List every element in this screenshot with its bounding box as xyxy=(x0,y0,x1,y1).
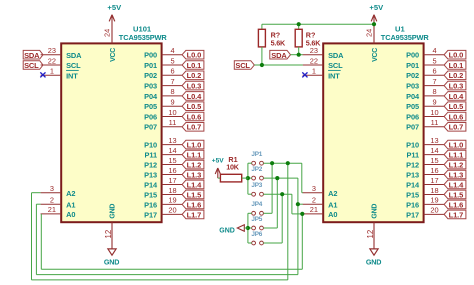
svg-text:12: 12 xyxy=(104,230,113,239)
svg-text:5: 5 xyxy=(432,56,436,65)
svg-text:SCL: SCL xyxy=(328,61,343,70)
svg-text:JP3: JP3 xyxy=(251,182,262,189)
svg-text:L1.3: L1.3 xyxy=(187,170,202,179)
svg-text:L1.1: L1.1 xyxy=(187,150,202,159)
svg-text:2: 2 xyxy=(312,196,316,205)
svg-text:8: 8 xyxy=(432,87,436,96)
svg-text:VCC: VCC xyxy=(110,48,117,62)
svg-text:9: 9 xyxy=(170,98,174,107)
svg-text:P06: P06 xyxy=(144,112,157,121)
svg-text:10K: 10K xyxy=(226,163,240,172)
svg-text:L0.6: L0.6 xyxy=(187,112,202,121)
svg-text:P01: P01 xyxy=(144,61,157,70)
svg-text:23: 23 xyxy=(48,46,56,55)
svg-text:L1.1: L1.1 xyxy=(449,150,464,159)
svg-text:L1.5: L1.5 xyxy=(449,190,464,199)
svg-text:L0.0: L0.0 xyxy=(187,51,202,60)
svg-text:P00: P00 xyxy=(144,51,157,60)
svg-text:P12: P12 xyxy=(406,160,419,169)
svg-text:20: 20 xyxy=(168,206,176,215)
svg-text:INT: INT xyxy=(66,72,78,81)
svg-text:A0: A0 xyxy=(328,210,337,219)
svg-text:L0.5: L0.5 xyxy=(187,102,202,111)
svg-text:16: 16 xyxy=(430,166,438,175)
svg-text:TCA9535PWR: TCA9535PWR xyxy=(381,33,430,42)
svg-text:P14: P14 xyxy=(406,180,420,189)
svg-text:7: 7 xyxy=(170,77,174,86)
svg-text:L1.6: L1.6 xyxy=(187,200,202,209)
svg-text:6: 6 xyxy=(170,67,174,76)
svg-text:12: 12 xyxy=(366,230,375,239)
svg-text:17: 17 xyxy=(168,176,176,185)
svg-text:L1.0: L1.0 xyxy=(449,141,464,150)
svg-text:L0.2: L0.2 xyxy=(187,71,202,80)
svg-text:L0.7: L0.7 xyxy=(449,123,464,132)
svg-text:14: 14 xyxy=(430,146,438,155)
svg-text:SCL: SCL xyxy=(66,61,81,70)
svg-text:L1.5: L1.5 xyxy=(187,190,202,199)
svg-text:P03: P03 xyxy=(144,82,157,91)
svg-text:22: 22 xyxy=(310,56,318,65)
svg-text:15: 15 xyxy=(168,156,176,165)
svg-text:P16: P16 xyxy=(406,200,419,209)
svg-text:P15: P15 xyxy=(406,190,419,199)
svg-text:6: 6 xyxy=(432,67,436,76)
svg-text:3: 3 xyxy=(312,184,316,193)
svg-text:L1.6: L1.6 xyxy=(449,200,464,209)
svg-text:8: 8 xyxy=(170,87,174,96)
svg-text:L1.0: L1.0 xyxy=(187,141,202,150)
svg-text:SDA: SDA xyxy=(24,51,40,60)
svg-text:19: 19 xyxy=(168,196,176,205)
svg-text:U1: U1 xyxy=(395,24,405,33)
svg-text:JP4: JP4 xyxy=(251,201,262,208)
svg-text:SDA: SDA xyxy=(271,51,287,60)
svg-text:+5V: +5V xyxy=(107,3,122,12)
svg-text:L1.7: L1.7 xyxy=(449,210,464,219)
svg-text:21: 21 xyxy=(310,205,318,214)
svg-text:21: 21 xyxy=(48,205,56,214)
svg-text:L0.5: L0.5 xyxy=(449,102,464,111)
svg-text:9: 9 xyxy=(432,98,436,107)
svg-text:SCL: SCL xyxy=(24,61,39,70)
svg-text:P12: P12 xyxy=(144,160,157,169)
svg-text:19: 19 xyxy=(430,196,438,205)
svg-text:P02: P02 xyxy=(406,71,419,80)
svg-text:P01: P01 xyxy=(406,61,419,70)
svg-text:SDA: SDA xyxy=(328,51,344,60)
svg-text:JP1: JP1 xyxy=(251,151,262,158)
svg-text:P15: P15 xyxy=(144,190,157,199)
svg-text:13: 13 xyxy=(168,136,176,145)
svg-text:P04: P04 xyxy=(144,92,158,101)
svg-text:11: 11 xyxy=(169,118,177,127)
svg-text:P02: P02 xyxy=(144,71,157,80)
svg-text:A1: A1 xyxy=(66,200,75,209)
svg-text:L1.4: L1.4 xyxy=(187,180,203,189)
svg-text:A2: A2 xyxy=(328,189,337,198)
svg-text:4: 4 xyxy=(170,46,174,55)
svg-text:L0.3: L0.3 xyxy=(449,82,464,91)
svg-text:P07: P07 xyxy=(406,123,419,132)
svg-text:GND: GND xyxy=(110,204,117,219)
svg-text:L1.2: L1.2 xyxy=(187,160,202,169)
svg-text:P14: P14 xyxy=(144,180,158,189)
svg-text:SDA: SDA xyxy=(66,51,82,60)
svg-text:24: 24 xyxy=(103,29,112,37)
svg-text:P04: P04 xyxy=(406,92,420,101)
svg-text:22: 22 xyxy=(48,56,56,65)
svg-text:L1.4: L1.4 xyxy=(449,180,465,189)
svg-text:P17: P17 xyxy=(406,210,419,219)
svg-text:P06: P06 xyxy=(406,112,419,121)
svg-text:P05: P05 xyxy=(406,102,419,111)
svg-text:L0.2: L0.2 xyxy=(449,71,464,80)
svg-text:A0: A0 xyxy=(66,210,75,219)
svg-text:18: 18 xyxy=(430,186,438,195)
svg-text:+5V: +5V xyxy=(212,157,225,164)
svg-text:L0.6: L0.6 xyxy=(449,112,464,121)
svg-text:5.6K: 5.6K xyxy=(306,39,321,48)
svg-text:P17: P17 xyxy=(144,210,157,219)
svg-text:2: 2 xyxy=(50,196,54,205)
svg-text:L0.4: L0.4 xyxy=(449,92,465,101)
svg-text:P10: P10 xyxy=(144,141,157,150)
svg-text:GND: GND xyxy=(366,257,381,266)
svg-text:11: 11 xyxy=(431,118,439,127)
svg-text:20: 20 xyxy=(430,206,438,215)
svg-text:A1: A1 xyxy=(328,200,337,209)
svg-text:L0.0: L0.0 xyxy=(449,51,464,60)
svg-text:L1.7: L1.7 xyxy=(187,210,202,219)
svg-text:U101: U101 xyxy=(133,24,152,33)
svg-text:JP2: JP2 xyxy=(251,166,262,173)
svg-text:L0.3: L0.3 xyxy=(187,82,202,91)
svg-text:7: 7 xyxy=(432,77,436,86)
svg-text:VCC: VCC xyxy=(372,48,379,62)
svg-text:P13: P13 xyxy=(406,170,419,179)
svg-text:P11: P11 xyxy=(407,150,419,159)
svg-text:10: 10 xyxy=(430,108,438,117)
svg-text:P11: P11 xyxy=(145,150,157,159)
svg-text:P00: P00 xyxy=(406,51,419,60)
svg-text:SCL: SCL xyxy=(235,61,250,70)
svg-text:L1.3: L1.3 xyxy=(449,170,464,179)
svg-text:GND: GND xyxy=(372,204,379,219)
svg-text:A2: A2 xyxy=(66,189,75,198)
svg-text:L0.7: L0.7 xyxy=(187,123,202,132)
svg-text:P05: P05 xyxy=(144,102,157,111)
svg-text:P07: P07 xyxy=(144,123,157,132)
svg-text:16: 16 xyxy=(168,166,176,175)
svg-text:INT: INT xyxy=(328,72,340,81)
svg-text:+5V: +5V xyxy=(369,3,384,12)
svg-text:4: 4 xyxy=(432,46,436,55)
svg-text:1: 1 xyxy=(312,67,316,76)
svg-text:10: 10 xyxy=(168,108,176,117)
svg-text:5: 5 xyxy=(170,56,174,65)
svg-text:L1.2: L1.2 xyxy=(449,160,464,169)
svg-text:GND: GND xyxy=(219,227,235,234)
svg-text:L0.1: L0.1 xyxy=(449,61,464,70)
svg-text:L0.4: L0.4 xyxy=(187,92,203,101)
svg-text:15: 15 xyxy=(430,156,438,165)
svg-text:P03: P03 xyxy=(406,82,419,91)
svg-text:24: 24 xyxy=(365,29,374,37)
svg-text:13: 13 xyxy=(430,136,438,145)
svg-text:3: 3 xyxy=(50,184,54,193)
svg-text:18: 18 xyxy=(168,186,176,195)
svg-text:L0.1: L0.1 xyxy=(187,61,202,70)
svg-text:P13: P13 xyxy=(144,170,157,179)
svg-text:17: 17 xyxy=(430,176,438,185)
svg-text:1: 1 xyxy=(50,67,54,76)
svg-text:JP5: JP5 xyxy=(251,216,262,223)
svg-text:TCA9535PWR: TCA9535PWR xyxy=(119,33,168,42)
svg-text:JP6: JP6 xyxy=(251,231,262,238)
svg-text:14: 14 xyxy=(168,146,176,155)
svg-text:GND: GND xyxy=(104,257,119,266)
svg-text:5.6K: 5.6K xyxy=(271,39,286,48)
svg-text:P16: P16 xyxy=(144,200,157,209)
svg-text:P10: P10 xyxy=(406,141,419,150)
